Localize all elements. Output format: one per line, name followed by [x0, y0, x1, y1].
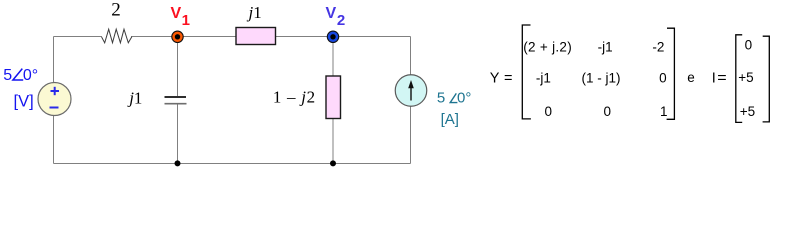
svg-text:0°: 0° — [457, 90, 471, 107]
voltage source plus sign — [51, 90, 60, 92]
svg-text:0°: 0° — [23, 67, 38, 84]
svg-text:-j1: -j1 — [536, 71, 551, 86]
current source label 5 angle 0 deg — [437, 90, 471, 107]
svg-text:1 – j2: 1 – j2 — [273, 88, 316, 107]
impedance 1-j2 box vertical — [326, 76, 341, 119]
voltage source Vs 5&#8736;0 circle — [38, 83, 71, 116]
svg-text:(2 + j.2): (2 + j.2) — [523, 39, 572, 54]
Y matrix left bracket — [522, 25, 531, 119]
svg-text:2: 2 — [337, 12, 345, 29]
voltage source label 5 angle 0 deg — [3, 67, 38, 84]
svg-text:0: 0 — [603, 104, 611, 119]
wire bottom — [54, 163, 411, 165]
svg-text:2: 2 — [111, 0, 121, 21]
svg-text:0: 0 — [659, 71, 667, 86]
svg-text:+5: +5 — [740, 104, 755, 119]
wire left vertical — [53, 37, 55, 83]
svg-text:-2: -2 — [652, 39, 664, 54]
wire V2 branch — [332, 37, 334, 77]
capacitor j1 plates — [165, 96, 187, 98]
junction dot under V2 — [330, 160, 336, 166]
svg-text:[A]: [A] — [441, 111, 459, 128]
junction dot under V1 — [175, 160, 181, 166]
node V2 — [327, 31, 338, 42]
current source arrow — [410, 86, 412, 101]
wire capacitor branch — [177, 37, 179, 97]
svg-text:(1 - j1): (1 - j1) — [581, 71, 620, 86]
impedance j1 box horizontal — [236, 28, 276, 45]
svg-text:-j1: -j1 — [598, 39, 613, 54]
svg-text:j1: j1 — [247, 3, 262, 22]
svg-text:1: 1 — [182, 12, 190, 29]
Y matrix right bracket — [667, 28, 675, 119]
node V1 — [172, 31, 183, 42]
svg-text:5: 5 — [437, 90, 445, 107]
svg-text:Y =: Y = — [490, 71, 513, 87]
resistor R 2ohm zigzag — [102, 29, 132, 43]
svg-text:V: V — [171, 5, 182, 22]
svg-text:I: I — [712, 70, 716, 86]
svg-text:j1: j1 — [127, 89, 142, 108]
I vector left bracket — [736, 35, 742, 123]
svg-text:V: V — [326, 5, 337, 22]
I vector right bracket — [763, 36, 770, 122]
wire right vertical — [410, 37, 412, 76]
svg-text:e: e — [687, 70, 695, 85]
svg-text:1: 1 — [660, 104, 668, 119]
voltage source minus sign — [50, 107, 59, 109]
wire top from j1 box to right corner — [276, 36, 411, 38]
wire top from resistor to V1 — [131, 36, 236, 38]
svg-text:[V]: [V] — [14, 93, 34, 111]
svg-text:0: 0 — [745, 38, 753, 53]
svg-text:0: 0 — [544, 104, 552, 119]
svg-text:5: 5 — [3, 67, 12, 84]
wire top from left corner to resistor — [54, 36, 103, 38]
svg-text:=: = — [717, 70, 726, 86]
current source Is circle — [395, 75, 427, 107]
svg-text:+5: +5 — [738, 70, 753, 85]
